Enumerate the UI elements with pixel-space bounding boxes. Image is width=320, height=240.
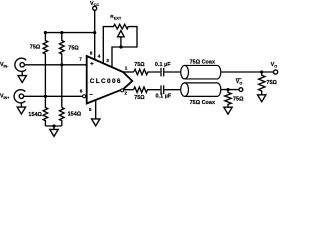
svg-text:75Ω: 75Ω: [30, 44, 41, 50]
svg-text:75Ω: 75Ω: [266, 80, 277, 86]
junction dot VCC bus: [93, 31, 96, 34]
svg-text:4: 4: [98, 53, 101, 58]
label REXT: [110, 14, 122, 20]
resistor R2 75ohm (right pullup): [60, 33, 65, 65]
ground at VIN+: [17, 103, 25, 114]
label VO: [271, 62, 278, 68]
output wire pin 1: [123, 71, 134, 73]
terminal VObar: [239, 88, 243, 92]
VCC terminal: [90, 1, 99, 11]
junction dot VIN- / R2,R4: [60, 63, 63, 66]
junction dot VIN+ / R1,R3: [44, 95, 47, 98]
svg-text:1: 1: [125, 66, 128, 71]
inversion bubble pin 6: [83, 95, 86, 98]
svg-text:EXT: EXT: [114, 17, 122, 21]
svg-text:CLC006: CLC006: [90, 78, 122, 85]
svg-text:8: 8: [90, 50, 93, 55]
inversion bubble pin 2: [121, 89, 124, 92]
svg-text:75Ω: 75Ω: [134, 62, 145, 68]
connector J2 VIN+: [14, 90, 25, 103]
resistor R6 75ohm (bottom series): [134, 87, 161, 93]
ground below 154ohm pair: [50, 126, 58, 136]
capacitor C2 0.1uF (bottom): [161, 85, 164, 94]
resistor R8 75ohm (bottom termination): [225, 90, 231, 108]
svg-text:75Ω Coax: 75Ω Coax: [190, 100, 215, 106]
svg-text:6: 6: [80, 89, 83, 94]
svg-text:5: 5: [89, 107, 92, 112]
svg-text:0.1 µF: 0.1 µF: [156, 94, 172, 100]
label VObar: [236, 79, 243, 86]
label VIN+: [0, 94, 10, 100]
wire VIN- to pin 7: [24, 64, 86, 66]
svg-text:3: 3: [106, 58, 109, 63]
svg-text:75Ω: 75Ω: [134, 95, 145, 101]
svg-text:IN-: IN-: [3, 64, 9, 68]
plus input mark: [90, 62, 93, 65]
svg-text:0.1 µF: 0.1 µF: [155, 62, 171, 68]
junction dot R2 top: [60, 31, 63, 34]
resistor R3 154ohm (left): [43, 96, 48, 126]
coax cable bottom 75ohm: [181, 83, 221, 97]
junction dot top output: [260, 70, 263, 73]
wire coax to VO: [221, 71, 274, 73]
op-amp U1 CLC006 body: [87, 56, 133, 104]
ground at pin 5: [92, 119, 100, 126]
wire VIN+ to pin 6: [24, 95, 83, 97]
svg-text:O: O: [239, 82, 242, 86]
ground at VIN-: [18, 71, 26, 82]
svg-text:O: O: [274, 65, 277, 69]
wire right column down through VIN+ line: [61, 65, 63, 108]
resistor R4 154ohm (right): [60, 108, 65, 127]
label VIN-: [0, 62, 9, 68]
terminal VO: [274, 70, 278, 74]
top bus wire: [46, 32, 95, 34]
connector J1 VIN-: [15, 58, 26, 71]
wire VCC to pin 8: [94, 10, 96, 59]
resistor R7 75ohm (top termination): [259, 72, 265, 95]
capacitor C1 0.1uF (top): [161, 68, 164, 77]
svg-text:2: 2: [124, 91, 127, 96]
junction dot REXT bottom: [119, 45, 122, 48]
junction dot bottom output: [226, 88, 229, 91]
svg-text:154Ω: 154Ω: [68, 112, 82, 118]
coax cable top 75ohm: [181, 65, 221, 79]
svg-text:154Ω: 154Ω: [28, 112, 42, 118]
svg-text:75Ω: 75Ω: [233, 96, 244, 102]
output wire pin 2: [124, 89, 134, 91]
ground below R7: [258, 95, 266, 102]
svg-text:75Ω: 75Ω: [68, 46, 79, 52]
svg-text:7: 7: [79, 57, 82, 62]
wire C2 to coax: [164, 89, 181, 91]
svg-text:IN+: IN+: [3, 96, 10, 100]
pin 5 wire: [95, 100, 97, 119]
wire coax to VObar: [221, 89, 239, 91]
resistor R5 75ohm (top series): [134, 69, 161, 75]
junction dot bottom: [52, 124, 55, 127]
bottom wire joining 154ohm resistors: [45, 125, 61, 127]
svg-text:75Ω Coax: 75Ω Coax: [190, 60, 215, 66]
wire C1 to coax: [164, 71, 181, 73]
ground below R8: [224, 107, 232, 114]
potentiometer REXT: [103, 24, 137, 67]
minus input mark: [90, 93, 93, 95]
resistor R1 75ohm (left pullup): [43, 33, 48, 97]
junction dot R1 top: [44, 31, 47, 34]
REXT wiper arrow: [118, 31, 125, 37]
